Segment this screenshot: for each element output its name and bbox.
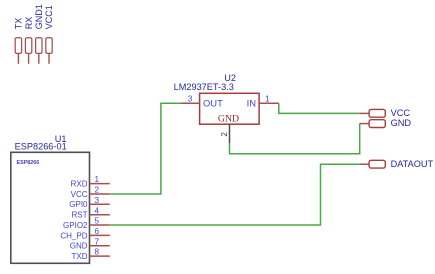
connector pin RX bbox=[24, 17, 34, 64]
wire net IN: U2 pin1 to VCC connector bbox=[279, 103, 360, 113]
connector DATAOUT bbox=[360, 159, 434, 169]
svg-text:8: 8 bbox=[95, 248, 100, 257]
svg-text:2: 2 bbox=[95, 186, 100, 195]
svg-text:6: 6 bbox=[95, 227, 100, 236]
svg-text:1: 1 bbox=[265, 95, 270, 104]
svg-text:1: 1 bbox=[95, 175, 100, 184]
svg-text:RST: RST bbox=[72, 211, 88, 220]
svg-text:7: 7 bbox=[95, 237, 100, 246]
svg-text:5: 5 bbox=[95, 217, 100, 226]
connector pin GND1 bbox=[34, 4, 44, 64]
svg-text:GND1: GND1 bbox=[34, 4, 44, 29]
svg-text:RX: RX bbox=[24, 17, 34, 30]
svg-text:3: 3 bbox=[95, 196, 100, 205]
svg-text:GPIO2: GPIO2 bbox=[63, 221, 88, 230]
U1 pin 5 GPIO2 bbox=[63, 217, 110, 230]
svg-text:GPI0: GPI0 bbox=[69, 200, 88, 209]
U1 pin 2 VCC bbox=[71, 186, 110, 199]
svg-text:GND: GND bbox=[218, 113, 239, 124]
connector GND bbox=[360, 118, 412, 128]
U1 pin 4 RST bbox=[72, 206, 110, 219]
U2 pin 2 GND bbox=[220, 124, 229, 143]
svg-text:4: 4 bbox=[95, 206, 100, 215]
svg-text:DATAOUT: DATAOUT bbox=[391, 159, 434, 169]
svg-text:TX: TX bbox=[14, 18, 24, 30]
svg-text:GND: GND bbox=[70, 242, 88, 251]
svg-text:LM2937ET-3.3: LM2937ET-3.3 bbox=[174, 82, 234, 92]
U1 pin 8 TXD bbox=[72, 248, 110, 261]
svg-text:IN: IN bbox=[247, 98, 256, 109]
U1 pin 7 GND bbox=[70, 237, 110, 250]
svg-text:ESP8266-01: ESP8266-01 bbox=[15, 142, 67, 152]
svg-text:3: 3 bbox=[188, 95, 193, 104]
svg-text:2: 2 bbox=[220, 132, 229, 137]
wire net DATAOUT: U1 pin5 to DATAOUT connector bbox=[110, 164, 360, 225]
svg-text:GND: GND bbox=[391, 118, 412, 128]
svg-text:VCC: VCC bbox=[391, 108, 411, 118]
svg-text:VCC1: VCC1 bbox=[44, 5, 54, 29]
U2 pin 3 OUT bbox=[180, 95, 199, 104]
U1 pin 3 GPI0 bbox=[69, 196, 110, 209]
U2 pin 1 IN bbox=[259, 95, 279, 104]
U1 pin 1 RXD bbox=[71, 175, 110, 188]
IC U1 body bbox=[11, 134, 90, 263]
regulator U2 body bbox=[174, 73, 260, 124]
svg-text:CH_PD: CH_PD bbox=[60, 231, 87, 240]
U1 pin 6 CH_PD bbox=[60, 227, 109, 240]
svg-text:TXD: TXD bbox=[72, 252, 88, 261]
svg-text:RXD: RXD bbox=[71, 180, 88, 189]
connector VCC bbox=[360, 108, 411, 118]
svg-text:OUT: OUT bbox=[203, 98, 223, 109]
svg-text:VCC: VCC bbox=[71, 190, 88, 199]
wire net GND: U2 pin2 to GND connector bbox=[230, 124, 360, 154]
svg-text:ESP8266: ESP8266 bbox=[17, 160, 40, 166]
wire net VCC: U1 pin2 to U2 pin3 bbox=[110, 103, 181, 194]
connector pin VCC1 bbox=[44, 5, 54, 64]
connector pin TX bbox=[14, 18, 24, 64]
